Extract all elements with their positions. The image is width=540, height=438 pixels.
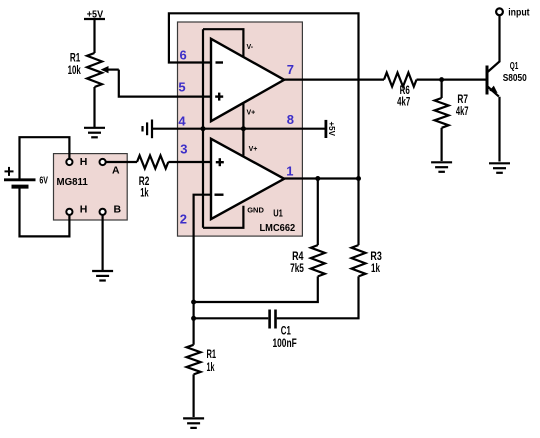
svg-text:Q1: Q1: [510, 60, 519, 72]
svg-text:H: H: [80, 156, 88, 168]
junction R7/base: [439, 77, 444, 82]
svg-text:GND: GND: [247, 206, 264, 215]
junction C1 node: [191, 316, 196, 321]
wire R3 bottom to C1: [277, 276, 359, 318]
svg-text:2: 2: [180, 211, 187, 226]
svg-text:R7: R7: [457, 94, 468, 106]
svg-text:R6: R6: [400, 85, 410, 97]
power +5V (pin 8): [326, 120, 336, 138]
sensor MG811 body: [54, 154, 128, 220]
svg-text:6V: 6V: [39, 175, 48, 186]
svg-text:10k: 10k: [68, 65, 82, 77]
op-amp U1B (top half): [211, 39, 284, 121]
ground (R1): [183, 418, 204, 428]
wire sensor B to ground: [101, 215, 103, 271]
wire R3 top: [357, 179, 359, 246]
sensor MG811 pins and labels: [57, 156, 122, 216]
wire pin 6 / feedback loop from pin 1: [169, 13, 359, 178]
wire internal GND vertical: [202, 29, 204, 228]
wire R4 bottom to node: [194, 276, 318, 302]
input terminal: [496, 6, 530, 18]
wire R7 bottom to ground: [441, 128, 443, 161]
svg-text:4k7: 4k7: [397, 97, 410, 109]
svg-text:R4: R4: [292, 251, 304, 263]
svg-text:MG811: MG811: [57, 177, 89, 188]
wire V- stub wrap (top op-amp): [203, 29, 243, 57]
svg-text:8: 8: [287, 112, 294, 127]
ground (sensor B): [92, 271, 113, 281]
svg-text:6: 6: [180, 47, 187, 62]
wire battery - to sensor H: [20, 187, 70, 236]
svg-text:C1: C1: [281, 326, 291, 338]
wire R6 to Q1 base: [417, 78, 486, 80]
svg-text:1k: 1k: [140, 187, 149, 199]
svg-text:4: 4: [178, 114, 186, 129]
wire V+ stub vertical: [242, 103, 244, 156]
svg-text:U1: U1: [273, 208, 283, 220]
resistor R1 1k (bottom): [187, 345, 217, 375]
resistor R3 1k: [352, 245, 382, 276]
wire +5V to potentiometer: [93, 19, 95, 53]
svg-text:H: H: [80, 204, 88, 216]
svg-text:S8050: S8050: [503, 73, 527, 84]
capacitor C1 100nF: [270, 310, 297, 351]
svg-text:+5V: +5V: [327, 122, 336, 137]
ground (R7): [431, 162, 452, 172]
junction R4/pin1: [315, 176, 320, 181]
op-amp U1A (bottom half): [211, 139, 284, 219]
resistor R2 1k: [106, 156, 211, 200]
svg-text:3: 3: [180, 142, 187, 157]
junction R4 node: [191, 300, 196, 305]
junction V+/pin4: [241, 126, 246, 131]
ground (pin 4, sideways): [143, 120, 153, 139]
wire pin 1 output: [284, 177, 358, 179]
transistor Q1 S8050: [487, 15, 527, 161]
svg-text:input: input: [508, 6, 530, 18]
svg-text:7: 7: [287, 62, 294, 77]
wire battery + to sensor H: [20, 137, 70, 179]
junction R3/feedback: [356, 176, 361, 181]
svg-text:7k5: 7k5: [290, 263, 304, 275]
svg-text:V+: V+: [249, 146, 258, 153]
wire R1 bottom to ground: [193, 374, 195, 417]
wire potentiometer to ground: [93, 87, 95, 128]
wire pin 7 output: [284, 78, 384, 80]
svg-text:V+: V+: [247, 109, 256, 116]
svg-text:1k: 1k: [207, 362, 215, 374]
svg-text:LMC662: LMC662: [260, 222, 296, 234]
svg-text:R1: R1: [207, 349, 217, 361]
svg-text:1k: 1k: [371, 263, 380, 275]
wire R7 top: [441, 80, 443, 98]
potentiometer R1 10k: [68, 53, 119, 87]
svg-text:R3: R3: [370, 251, 381, 263]
svg-text:R1: R1: [70, 53, 81, 65]
wire C1 to node: [194, 317, 269, 319]
svg-text:A: A: [112, 165, 120, 177]
resistor R7 4k7: [435, 94, 469, 128]
svg-text:4k7: 4k7: [456, 106, 469, 118]
ground (potentiometer): [84, 128, 105, 138]
svg-text:5: 5: [178, 80, 185, 95]
svg-text:B: B: [114, 204, 122, 216]
resistor R4 7k5: [290, 245, 325, 276]
svg-text:100nF: 100nF: [273, 338, 297, 350]
svg-text:V-: V-: [247, 44, 254, 51]
battery 6V: [4, 167, 48, 187]
wire R4 top: [317, 179, 319, 246]
svg-text:R2: R2: [139, 176, 150, 188]
wire GND stub wrap (bottom op-amp): [203, 206, 243, 228]
power +5V (top): [84, 8, 105, 20]
resistor R6 4k7: [384, 73, 417, 109]
ground (Q1 emitter): [489, 163, 510, 173]
op-amp IC body U1: [178, 22, 303, 236]
wire wiper to pin 5: [119, 70, 211, 97]
svg-text:1: 1: [286, 164, 293, 179]
junction GND/pin4: [201, 126, 206, 131]
wire inverting input down to feedback node: [194, 195, 211, 345]
wire pin 4 GND rail to pin 8 +5V: [152, 128, 326, 130]
